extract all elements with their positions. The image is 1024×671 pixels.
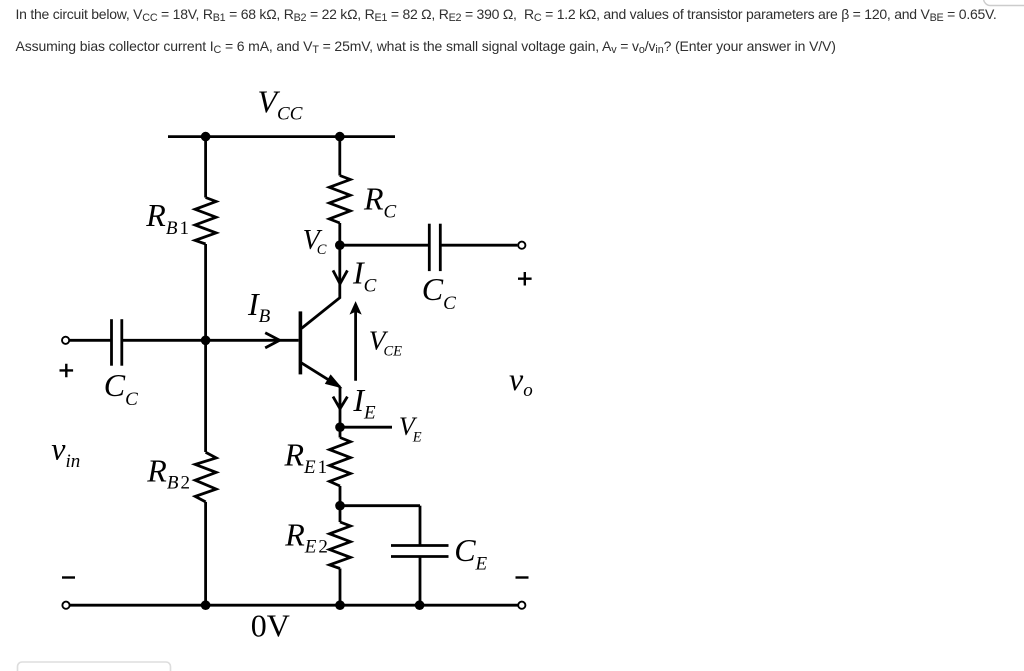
wire: RE2 bottom to ground rail (339, 569, 342, 606)
svg-text:IB: IB (247, 286, 271, 327)
node: top rail / RB1 junction (201, 132, 211, 142)
wire: VE stub (340, 426, 392, 429)
wire: collector node to output capacitor (340, 244, 430, 247)
wire: CE capacitor to ground rail (419, 557, 422, 606)
wire: ground rail 0V (70, 604, 518, 607)
resistor RB2 (195, 452, 216, 502)
wire: VE node to RE1 (339, 427, 342, 437)
node VC: collector node (335, 240, 345, 250)
resistor RB1 (195, 198, 216, 245)
svg-text:VCE: VCE (369, 325, 402, 360)
wire: RC bottom lead to collector node (338, 223, 341, 245)
partial button box top-right (984, 0, 1024, 6)
question text line 2 (16, 38, 836, 56)
svg-text:CE: CE (454, 532, 487, 575)
wire: RB1 bottom to RB2 top (through base junction) (204, 244, 207, 452)
wire: base wire from capacitor to transistor base (122, 339, 299, 342)
question text line 1 (16, 6, 997, 24)
svg-text:VE: VE (399, 412, 422, 445)
node: rail/CE junction (415, 600, 425, 610)
svg-text:VC: VC (303, 225, 327, 258)
wire: RC upper lead (338, 137, 341, 176)
capacitor CC (output) (428, 224, 431, 271)
label: input minus sign (62, 576, 75, 578)
svg-text:VCC: VCC (258, 83, 303, 124)
wire: RB1 upper lead (204, 137, 207, 198)
wire: RE1 bottom to RE2 node (339, 486, 342, 506)
arrow IC on collector wire (333, 270, 347, 283)
node: base junction with bias divider (201, 336, 211, 346)
node: RE1/RE2/CE junction (335, 501, 345, 511)
svg-text:IC: IC (352, 255, 377, 297)
svg-text:CC: CC (422, 271, 456, 314)
arrow IE on emitter wire (333, 397, 347, 409)
label: input plus sign (60, 364, 74, 378)
node VE (335, 422, 345, 432)
wire: output capacitor to output terminal (440, 244, 517, 247)
label: output minus sign (516, 576, 529, 578)
wire: RB2 bottom lead to ground rail (204, 502, 207, 605)
arrow IB on base wire (265, 333, 279, 348)
svg-text:vo: vo (509, 361, 533, 401)
node: rail/RE2 junction (335, 600, 345, 610)
transistor Q1: emitter lead with arrow (302, 363, 341, 387)
resistor RE1 (330, 438, 351, 487)
capacitor CC (input) (110, 319, 113, 366)
capacitor CE (391, 544, 449, 547)
svg-text:RC: RC (363, 181, 397, 223)
transistor Q1: base bar (299, 311, 303, 374)
svg-text:RB2: RB2 (146, 453, 190, 494)
label: output plus sign (518, 272, 532, 286)
wire: input terminal to input capacitor (69, 339, 111, 342)
wire: CE branch vertical to capacitor (419, 506, 422, 546)
wire: CE branch horizontal (340, 504, 420, 507)
partial answer input box bottom-left (18, 662, 171, 671)
terminal: input bottom (62, 602, 69, 609)
node: rail/RB2 junction (201, 600, 211, 610)
wire: emitter vertical to VE node (339, 387, 342, 427)
svg-text:RB1: RB1 (145, 197, 189, 239)
terminal: output top (518, 242, 525, 249)
terminal: input top (62, 337, 69, 344)
svg-text:RE2: RE2 (284, 516, 328, 557)
svg-text:IE: IE (352, 382, 376, 423)
terminal: output bottom (518, 602, 525, 609)
wire: VCC top rail (168, 135, 395, 138)
svg-text:0V: 0V (251, 608, 290, 644)
resistor RE2 (339, 506, 342, 522)
svg-text:RE1: RE1 (284, 437, 328, 478)
svg-text:CC: CC (104, 367, 138, 410)
node: top rail / RC junction (335, 132, 345, 142)
resistor RC (329, 176, 350, 224)
svg-text:vin: vin (51, 431, 80, 473)
transistor Q1: collector lead (302, 245, 340, 328)
arrow VCE (354, 307, 357, 381)
